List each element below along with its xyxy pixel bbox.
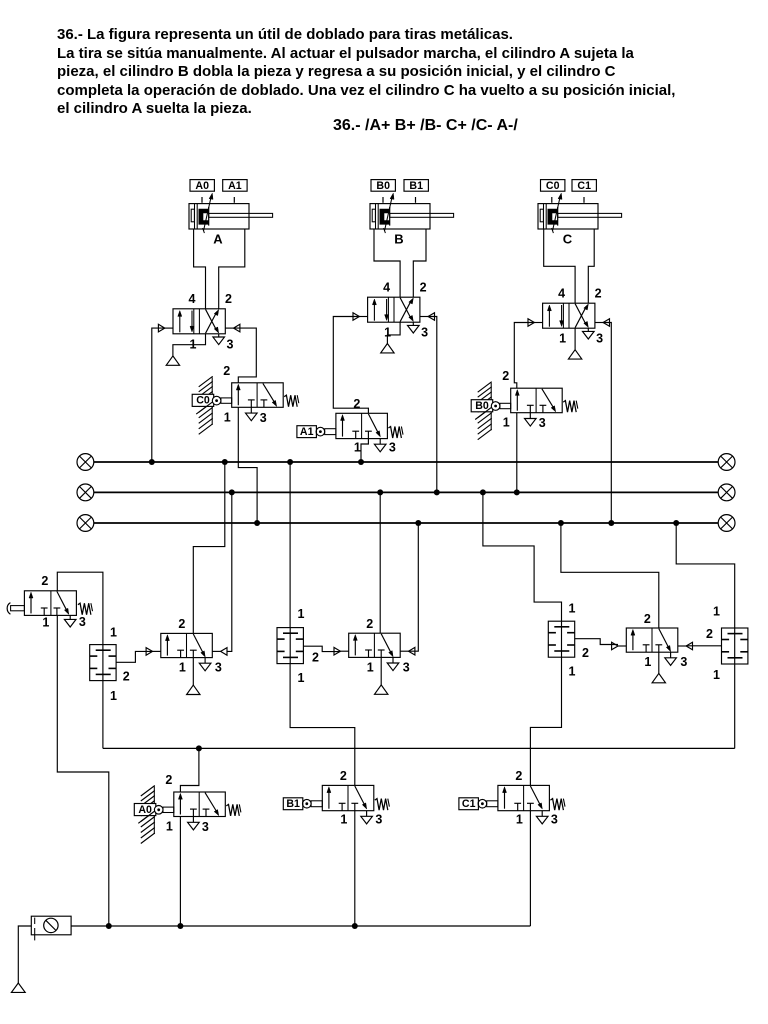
two-pressure valve U4 seats [728,633,743,635]
valve VA left pilot [158,324,164,332]
svg-text:4: 4 [558,286,565,300]
wire valve VB left pilot to valve A1 port 2 [333,317,368,414]
two-pressure valve U2 seats [283,632,298,634]
svg-text:3: 3 [375,813,382,827]
wire valve VC port 1 to supply [574,328,576,350]
valve C1 roller actuator [487,801,498,807]
svg-text:1: 1 [516,813,523,827]
svg-text:1: 1 [298,607,305,621]
junction dots on supply line [106,923,112,929]
svg-text:2: 2 [223,364,230,378]
valve VM2 right pilot [409,647,415,655]
cylinder B piston plate [389,207,391,226]
wire valve VC left pilot to valve B0 port 2 [514,323,534,389]
wire valve VA port 1 to supply [173,334,206,356]
wire air supply to exhaust triangle [18,926,31,983]
cylinder A cushion [191,209,194,222]
wire bus line 1 to valve VM1 port 2 [193,462,225,633]
valve B1 roller actuator [311,801,322,807]
supply triangle under valve VA [166,356,179,365]
svg-text:4: 4 [189,292,196,306]
valve VC body [543,303,595,328]
junction dots on bus line 2 [229,489,235,495]
junction dot on signal line [196,745,202,751]
svg-text:2: 2 [420,280,427,294]
svg-text:3: 3 [680,655,687,669]
cylinder C body [538,204,598,229]
valve B0 flow symbols [516,393,518,411]
svg-text:1: 1 [110,626,117,640]
bus line 2 [94,491,718,493]
svg-text:1: 1 [713,605,720,619]
svg-text:2: 2 [312,651,319,665]
valve S1 spring [78,603,91,615]
valve VA exhaust 3 [218,334,220,337]
valve VM3 body [626,628,678,652]
valve B1 flow symbols [328,790,330,809]
svg-text:4: 4 [383,280,390,294]
cylinder B sensor tick 2 [415,197,417,203]
junction dots on bus line 3 [254,520,260,526]
valve C1 body [498,785,550,810]
wire valve A1 port 1 to bus line 1 [361,439,368,462]
valve C1 label box C1 [459,798,479,810]
bus line 1 right terminator [718,454,735,471]
svg-text:2: 2 [706,627,713,641]
valve A0 body [174,792,226,817]
valve VC left pilot [528,319,534,327]
wire valve B0 port 1 to bus line 2 [516,413,518,493]
svg-text:A1: A1 [300,426,314,438]
valve A0 exhaust 3 [192,817,194,823]
wire valve VA left pilot to bus line 1 [152,328,165,462]
wire start valve S1 port 2 to two-pressure valve U1 top [57,572,103,644]
wire bus line 3 to valve VM2 right pilot [409,523,419,651]
valve B0 label box B0 [471,400,493,412]
valve VM2 exhaust [392,657,394,663]
wire valve VA right pilot to valve C0 port 2 [234,328,257,383]
cylinder B piston magnet [380,209,390,225]
cylinder A sensor tick 2 [233,197,235,203]
wire signal line to valve A0 port 2 [180,748,199,792]
cylinder C cushion [540,209,543,222]
cylinder C sensor tick 2 [583,197,585,203]
cylinder A sensor arrow [204,196,212,231]
cylinder B sensor tick 1 [382,197,384,203]
valve VA right pilot [234,324,240,332]
svg-text:1: 1 [298,671,305,685]
air supply unit P1 [31,916,71,935]
cylinder A sensor tick 1 [201,197,203,203]
wire cylinder C right port to valve VC port 2 [588,229,594,303]
valve C0 spring [284,395,297,407]
svg-text:3: 3 [202,820,209,834]
svg-text:2: 2 [366,617,373,631]
svg-text:B: B [394,232,403,247]
svg-text:1: 1 [340,813,347,827]
cylinder B cushion [372,209,375,222]
label box C1 [572,180,596,192]
svg-text:2: 2 [353,397,360,411]
valve VA cross arrows [206,312,217,333]
svg-text:3: 3 [389,441,396,455]
wire cylinder B left port to valve VB port 4 [374,229,400,297]
valve A0 label box A0 [134,804,156,816]
svg-text:2: 2 [340,769,347,783]
wire valve C0 port 1 to bus line 3 [238,407,257,523]
valve A1 label box A1 [297,426,317,438]
valve VM3 flow symbols [632,632,634,650]
svg-text:1: 1 [569,665,576,679]
svg-text:2: 2 [41,574,48,588]
valve B0 exhaust 3 [529,413,531,419]
svg-text:2: 2 [515,769,522,783]
cylinder A body [189,204,249,229]
svg-text:1: 1 [569,602,576,616]
wire two-pressure valve U3 bottom to valve C1 port 2 [530,657,561,785]
label box C0 [541,180,565,192]
valve B0 wall hatch over box [475,407,492,419]
valve A1 flow symbols [342,418,344,437]
valve A1 body [336,413,388,438]
valve VB left pilot [353,313,359,321]
valve VM3 left pilot [612,642,618,650]
bus line 1 [94,461,718,463]
svg-text:1: 1 [42,615,49,629]
svg-text:C0: C0 [546,180,560,192]
label box B1 [404,180,428,192]
supply triangle under valve VB [381,344,394,353]
svg-text:3: 3 [260,411,267,425]
valve B1 spring [375,799,388,811]
svg-text:1: 1 [179,661,186,675]
valve A0 flow symbols [179,796,181,814]
bus line 2 left terminator [77,484,94,501]
valve C0 exhaust 3 [250,407,252,413]
bus line 3 [94,522,718,524]
valve VC right pilot [603,319,609,327]
svg-text:2: 2 [644,612,651,626]
supply triangle under valve VC [568,350,581,359]
valve C0 roller actuator [221,398,232,403]
cylinder C sensor tick 1 [551,197,553,203]
cylinder B body [370,204,430,229]
svg-text:C1: C1 [462,798,476,810]
wire valve VM1 right pilot to bus line 2 [227,492,232,651]
valve C0 flow symbols [237,387,239,405]
valve C0 wall mount [211,377,213,425]
valve C0 wall hatch over box [196,402,213,414]
valve VM2 supply 1 [380,657,382,685]
valve VM3 exhaust [670,652,672,658]
wire two-pressure valve U3 port 2 to valve VM3 left pilot [575,639,618,645]
wire valve VB port 1 to supply [387,322,400,343]
exhaust triangle bottom left [11,983,25,992]
svg-text:A1: A1 [228,180,242,192]
cylinder A rod [209,213,273,217]
two-pressure valve U3 seats [554,626,569,628]
svg-text:1: 1 [367,660,374,674]
cylinder C piston plate [557,207,559,226]
valve B1 exhaust 3 [366,811,368,817]
bus line 3 right terminator [718,515,735,532]
valve B0 body [511,388,563,413]
valve VB right pilot [428,313,434,321]
valve C1 spring [550,799,563,811]
valve VC exhaust 3 [587,328,589,331]
wire cylinder A left port to valve VA port 4 [194,229,206,309]
svg-text:3: 3 [227,337,234,351]
valve VM3 right pilot [686,642,692,650]
svg-text:1: 1 [224,410,231,424]
bus line 1 left terminator [77,454,94,471]
svg-text:A: A [213,232,223,247]
valve VM1 supply 1 [192,658,194,686]
svg-text:C1: C1 [577,180,591,192]
valve B0 roller actuator [500,403,511,408]
svg-text:2: 2 [595,286,602,300]
wire valve B1 port 1 to supply line [354,811,356,926]
valve A0 wall hatch over box [138,811,155,823]
wire two-pressure valve U1 bottom to signal line [102,681,104,749]
two-pressure valve U1 seats [96,649,111,651]
cylinder C rod [558,213,622,217]
svg-text:3: 3 [551,813,558,827]
valve VM1 exhaust [204,658,206,664]
valve S1 exhaust 3 [69,615,71,619]
valve VM3 supply 1 [658,652,660,673]
valve VB cross arrows [400,301,411,322]
wire two-pressure valve U1 port 2 to valve VM1 left pilot [116,651,152,662]
wire valve A0 port 1 to supply line [179,817,181,927]
cylinder A piston plate [208,207,210,226]
svg-text:2: 2 [165,773,172,787]
svg-text:1: 1 [166,820,173,834]
cylinder B rod [390,213,454,217]
label box A1 [223,180,247,192]
valve VM1 flow symbols [166,638,168,656]
valve S1 pushbutton [11,606,25,611]
wire bus line 1 to two-pressure valve U2 top [289,462,291,628]
svg-text:3: 3 [421,326,428,340]
svg-text:2: 2 [123,670,130,684]
wire start valve S1 port 1 to supply line [57,615,109,926]
svg-text:3: 3 [215,661,222,675]
wire bus line 2 to two-pressure valve U3 top [483,492,562,621]
wire cylinder C left port to valve VC port 4 [544,229,575,303]
valve VC straight arrows [548,309,550,327]
valve VC cross arrows [575,307,586,328]
wire two-pressure valve U4 port 2 to valve VM3 right pilot [686,645,721,647]
wire signal line to two-pressure valve U4 bottom [734,664,736,748]
cylinder C piston magnet [548,209,558,225]
wire valve VC right pilot to bus line 3 [603,323,612,524]
cylinder B sensor arrow [385,196,393,231]
valve VA body [173,309,225,334]
valve S1 body [24,591,76,616]
valve B0 spring [563,401,576,413]
valve B1 label box B1 [283,798,303,810]
supply line [71,925,530,927]
svg-text:3: 3 [596,332,603,346]
svg-text:B1: B1 [286,798,300,810]
two-pressure valve U4 body [722,628,748,664]
svg-text:1: 1 [354,441,361,455]
label box B0 [371,180,395,192]
two-pressure valve U3 body [548,621,574,657]
valve VM1 right pilot [221,648,227,656]
valve C0 label box C0 [192,394,214,406]
wire bus line 3 to valve VM3 port 2 [561,523,659,628]
bus line 2 right terminator [718,484,735,501]
valve C1 exhaust 3 [541,811,543,817]
valve B0 wall mount [490,383,492,431]
label box A0 [190,180,214,192]
valve VB body [368,297,420,322]
valve S1 flow symbols [30,595,32,613]
wire valve VB right pilot to bus line 2 [428,317,437,493]
cylinder C sensor arrow [553,196,561,231]
valve A1 exhaust 3 [379,439,381,445]
svg-text:1: 1 [503,416,510,430]
svg-text:1: 1 [559,332,566,346]
valve VM2 left pilot [334,647,340,655]
valve A0 spring [226,804,239,816]
svg-text:2: 2 [502,369,509,383]
wire two-pressure valve U2 bottom to valve B1 port 2 [290,664,355,786]
bus line 3 left terminator [77,515,94,532]
svg-text:3: 3 [539,416,546,430]
svg-text:1: 1 [644,655,651,669]
two-pressure valve U2 body [277,628,303,664]
valve VM2 body [349,633,401,657]
valve VM2 flow symbols [354,638,356,656]
svg-text:3: 3 [79,615,86,629]
svg-text:2: 2 [225,292,232,306]
svg-text:A0: A0 [195,180,209,192]
wire cylinder B right port to valve VB port 2 [413,229,426,297]
svg-text:B0: B0 [376,180,390,192]
signal line from valve A0 port 2 [103,747,735,749]
svg-text:C: C [563,232,573,247]
svg-text:B1: B1 [409,180,423,192]
valve C1 flow symbols [504,790,506,809]
wire two-pressure valve U2 port 2 to valve VM2 left pilot [303,646,340,651]
valve VB straight arrows [373,303,375,321]
svg-text:3: 3 [403,660,410,674]
valve VA straight arrows [179,314,181,332]
valve B1 body [322,785,374,810]
valve A1 roller actuator [325,429,336,435]
valve A0 roller actuator [163,807,174,812]
two-pressure valve U1 body [90,645,116,681]
wire bus line 3 to two-pressure valve U4 top [676,523,735,628]
valve VB exhaust 3 [412,322,414,325]
wire cylinder A right port to valve VA port 2 [219,229,245,309]
cylinder A piston magnet [199,209,209,225]
wire bus line 2 to valve VM2 port 2 [379,492,381,633]
svg-text:2: 2 [582,646,589,660]
junction dots on bus line 1 [149,459,155,465]
valve VM1 body [161,633,213,657]
svg-text:2: 2 [178,617,185,631]
svg-text:1: 1 [713,668,720,682]
valve A1 spring [388,427,401,439]
valve VM1 left pilot [146,648,152,656]
valve C0 body [232,383,284,408]
svg-text:1: 1 [110,689,117,703]
wire valve C1 port 1 to supply line [529,811,531,926]
valve A0 wall mount [153,787,155,835]
